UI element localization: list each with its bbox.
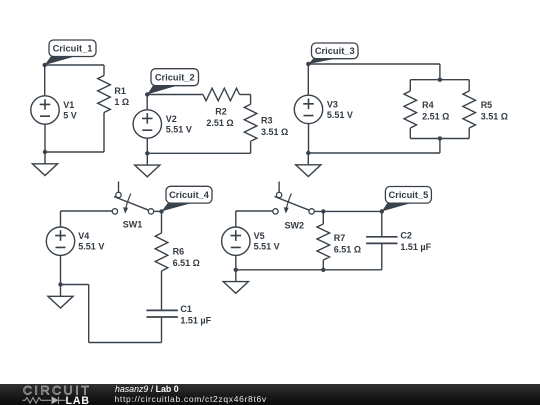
- node net Cricuit_5: [380, 209, 384, 213]
- footer bar: [0, 384, 540, 405]
- wire: [439, 139, 441, 154]
- wire: [61, 210, 113, 212]
- wire: [45, 64, 104, 66]
- resistor R3: [244, 104, 257, 141]
- net flag label Cricuit_1: [45, 40, 96, 65]
- svg-text:R1: R1: [114, 86, 126, 96]
- resistor R5: [463, 91, 476, 128]
- wire: [60, 211, 62, 227]
- svg-text:5.51 V: 5.51 V: [254, 242, 280, 252]
- svg-text:Cricuit_4: Cricuit_4: [169, 190, 210, 200]
- ground: [32, 152, 57, 176]
- svg-text:3.51 Ω: 3.51 Ω: [481, 111, 508, 121]
- svg-text:5.51 V: 5.51 V: [166, 125, 192, 135]
- voltage source V2: [133, 110, 161, 138]
- net flag label Cricuit_2: [147, 69, 198, 95]
- net flag label Cricuit_3: [308, 43, 358, 64]
- svg-text:V5: V5: [254, 231, 265, 241]
- wire: [250, 95, 252, 105]
- svg-text:3.51 Ω: 3.51 Ω: [261, 127, 288, 137]
- wire: [146, 95, 148, 110]
- svg-text:Cricuit_2: Cricuit_2: [155, 73, 195, 83]
- resistor R7: [317, 224, 330, 260]
- wire: [146, 138, 148, 153]
- svg-text:5.51 V: 5.51 V: [327, 110, 353, 120]
- svg-text:Cricuit_3: Cricuit_3: [315, 46, 355, 56]
- wire: [410, 138, 469, 140]
- wire: [308, 63, 440, 65]
- svg-text:1.51 µF: 1.51 µF: [180, 316, 211, 326]
- svg-text:R2: R2: [215, 106, 227, 116]
- wire: [161, 271, 163, 310]
- wire: [45, 151, 104, 153]
- wire: [240, 94, 251, 96]
- wire: [381, 211, 383, 236]
- wire: [235, 211, 237, 227]
- svg-text:Cricuit_5: Cricuit_5: [389, 190, 429, 200]
- wire: [161, 317, 163, 343]
- wire: [381, 243, 383, 269]
- node net Cricuit_4: [159, 209, 163, 213]
- wire: [236, 210, 273, 212]
- switch SW2: [273, 182, 315, 215]
- svg-text:R7: R7: [334, 233, 346, 243]
- wire: [154, 210, 162, 212]
- svg-text:C1: C1: [180, 304, 192, 314]
- net flag label Cricuit_5: [382, 187, 432, 212]
- svg-text:2.51 Ω: 2.51 Ω: [206, 118, 233, 128]
- wire: [236, 269, 382, 271]
- svg-text:V3: V3: [327, 100, 338, 110]
- voltage source V1: [31, 96, 59, 124]
- svg-text:V1: V1: [63, 100, 74, 110]
- svg-text:R4: R4: [422, 100, 434, 110]
- wire: [307, 64, 309, 95]
- svg-text:R5: R5: [481, 100, 493, 110]
- wire: [250, 141, 252, 153]
- svg-text:Cricuit_1: Cricuit_1: [53, 44, 93, 54]
- wire: [314, 210, 382, 212]
- voltage source V5: [222, 227, 250, 255]
- svg-text:V2: V2: [166, 114, 177, 124]
- wire: [308, 124, 310, 153]
- node R7 top: [321, 209, 325, 213]
- wire: [308, 152, 440, 154]
- voltage source V4: [46, 227, 74, 255]
- wire: [103, 65, 105, 76]
- node circuit2 bottom: [145, 151, 149, 155]
- ground: [296, 153, 321, 177]
- CircuitLab logo: [18, 384, 113, 405]
- svg-text:LAB: LAB: [66, 395, 90, 405]
- switch SW1: [112, 182, 153, 215]
- svg-text:5.51 V: 5.51 V: [78, 242, 104, 252]
- wire: [147, 94, 203, 96]
- wire: [147, 152, 250, 154]
- wire: [88, 285, 90, 343]
- node circuit3 bottom: [306, 151, 310, 155]
- node circuit5 gnd node: [234, 268, 238, 272]
- voltage source V3: [294, 95, 322, 123]
- svg-text:R3: R3: [261, 116, 273, 126]
- node circuit4 gnd node: [58, 282, 62, 286]
- svg-text:2.51 Ω: 2.51 Ω: [422, 111, 449, 121]
- wire: [409, 80, 411, 91]
- svg-text:C2: C2: [400, 230, 412, 240]
- svg-text:6.51 Ω: 6.51 Ω: [334, 244, 361, 254]
- ground: [223, 270, 248, 294]
- node net Cricuit_1: [43, 63, 47, 67]
- svg-text:R6: R6: [173, 246, 185, 256]
- resistor R2: [203, 88, 240, 101]
- footer title text: [114, 383, 116, 385]
- wire: [439, 64, 441, 80]
- wire: [44, 124, 46, 152]
- svg-text:SW1: SW1: [123, 220, 143, 230]
- wire: [322, 260, 324, 270]
- wire: [89, 342, 162, 344]
- resistor R4: [404, 91, 417, 128]
- node net Cricuit_2: [145, 92, 149, 96]
- node R7 bottom: [321, 268, 325, 272]
- node parallel bottom: [438, 136, 442, 140]
- wire: [44, 65, 46, 96]
- svg-text:5 V: 5 V: [63, 111, 77, 121]
- node circuit1 bottom: [43, 150, 47, 154]
- resistor R1: [98, 76, 111, 113]
- svg-text:1.51 µF: 1.51 µF: [400, 242, 431, 252]
- wire: [322, 211, 324, 224]
- wire: [60, 255, 62, 284]
- node net Cricuit_3: [306, 62, 310, 66]
- wire: [161, 211, 163, 233]
- wire: [468, 80, 470, 91]
- capacitor C1: [147, 310, 178, 317]
- ground: [48, 285, 73, 309]
- svg-text:1 Ω: 1 Ω: [114, 97, 129, 107]
- resistor R6: [155, 233, 168, 271]
- wire: [235, 255, 237, 269]
- wire: [468, 128, 470, 139]
- svg-text:V4: V4: [78, 231, 89, 241]
- node parallel top: [438, 78, 442, 82]
- wire: [410, 79, 469, 81]
- wire: [61, 284, 89, 286]
- wire: [409, 128, 411, 139]
- net flag label Cricuit_4: [162, 186, 213, 211]
- svg-text:SW2: SW2: [285, 220, 305, 230]
- wire: [103, 113, 105, 153]
- capacitor C2: [366, 237, 397, 244]
- ground: [135, 153, 160, 177]
- svg-text:6.51 Ω: 6.51 Ω: [173, 258, 200, 268]
